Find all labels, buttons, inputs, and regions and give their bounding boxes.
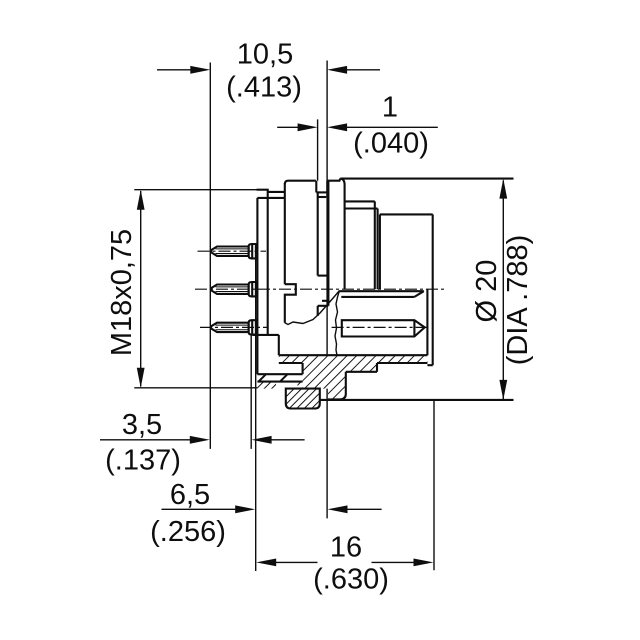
svg-text:3,5: 3,5 — [122, 409, 162, 441]
svg-text:M18x0,75: M18x0,75 — [106, 229, 138, 356]
svg-text:(.256): (.256) — [150, 516, 226, 548]
svg-text:1: 1 — [382, 92, 398, 124]
svg-text:10,5: 10,5 — [237, 39, 293, 71]
svg-text:(.040): (.040) — [353, 128, 429, 160]
svg-text:(.137): (.137) — [105, 445, 181, 477]
svg-text:(.413): (.413) — [226, 72, 302, 104]
svg-text:(.630): (.630) — [313, 564, 389, 596]
svg-text:(DIA .788): (DIA .788) — [502, 235, 534, 366]
svg-text:Ø 20: Ø 20 — [471, 260, 503, 323]
svg-text:6,5: 6,5 — [170, 479, 210, 511]
svg-text:16: 16 — [330, 532, 362, 564]
